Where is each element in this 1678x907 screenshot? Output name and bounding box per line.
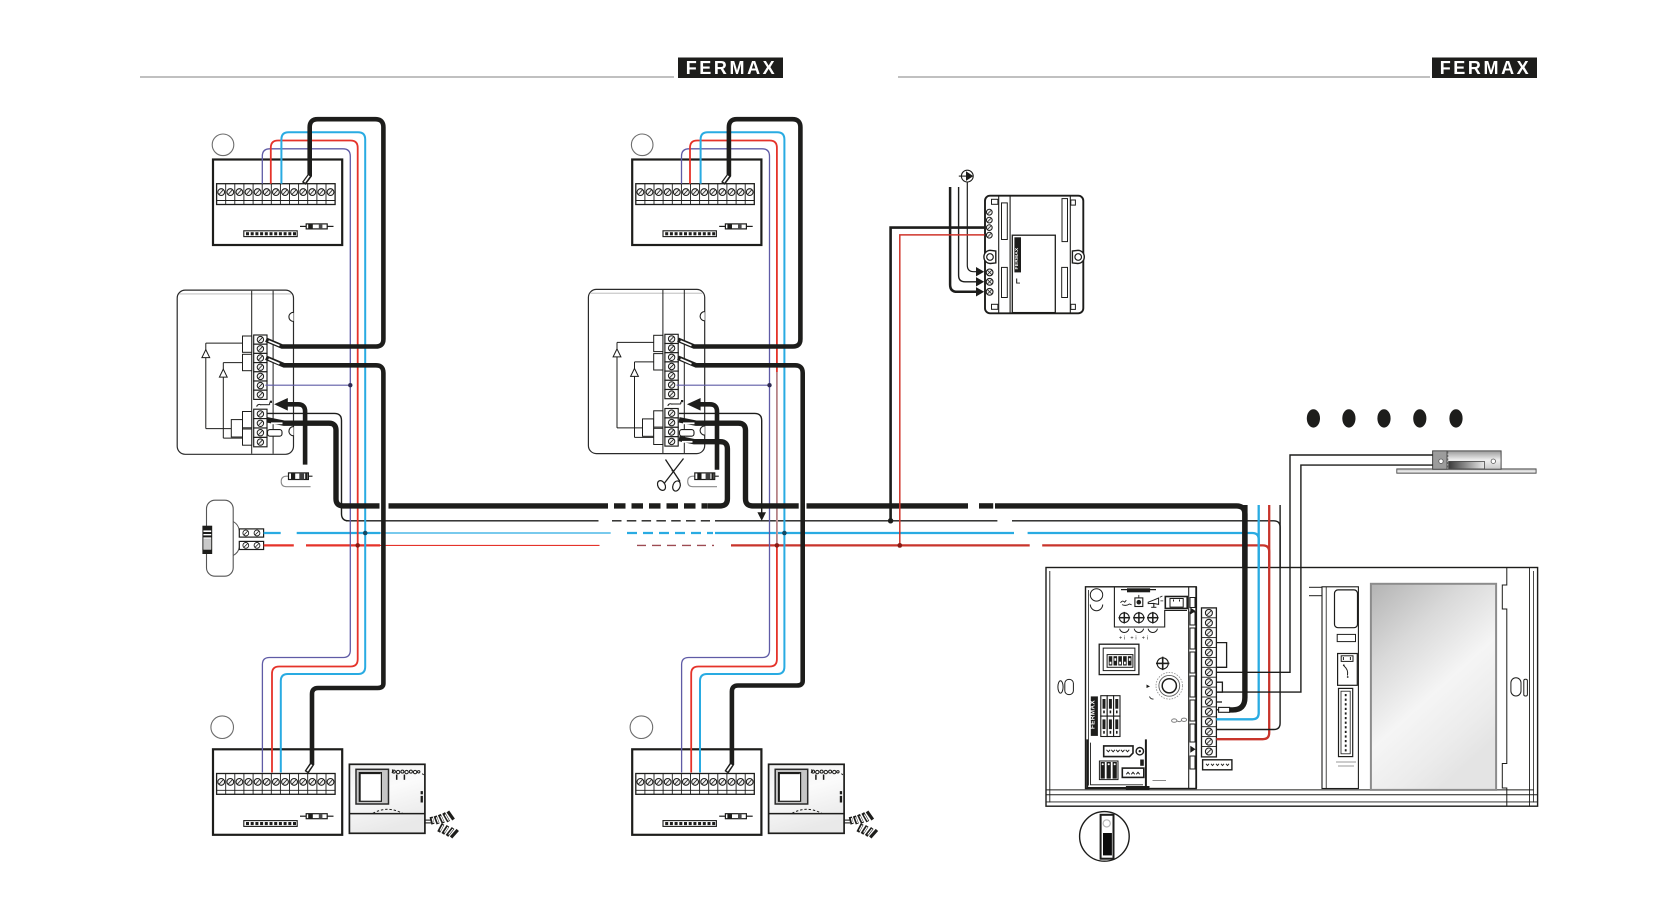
wire: red riser column 2 thin segment past D2 [776,372,778,544]
board FERMAX label vertical [1089,696,1098,736]
wire: door lock wire 2 to terminal 9 [1216,465,1432,692]
wire: thick black loop A2 to D2 IN [678,119,800,346]
terminal box A2 (top apartment 2) [632,160,761,246]
wire: red bus vertical into panel terminal 14 [1216,505,1269,739]
board potentiometer 1 [1119,612,1131,633]
wire: data thin black bus to street panel terminal 13 [715,521,1280,730]
terminator resistor below D2 [688,473,719,487]
module bottom marks [1336,762,1356,766]
call-point circle apartment 2 top [631,134,653,156]
wire: thick black riser D2 OUT down to B2 [678,358,803,773]
board speaker arcs [1090,589,1102,611]
wire: purple tap distributor D2 [677,384,770,386]
wire: red riser column 1 (A1 to B1) [271,141,358,773]
stub terminal 11 [1216,709,1218,711]
svg-text:FERMAX: FERMAX [686,58,778,78]
wire: thick black D2 to dashed bus toward D1 [679,439,727,506]
board jack marks [1172,718,1187,722]
board small mark [1153,780,1167,782]
lug panel black wire white body [1219,707,1230,712]
wire: door lock wire 1 to terminal 7 [1216,455,1432,672]
board connector block top [1165,597,1187,609]
wire: thick black riser D1 OUT down to B1 [266,358,383,773]
wire: thick black main bus segment D2 to cut [807,503,969,508]
board 5-pin connector [1104,746,1144,757]
wire: thick black main bus short dash at cut 2 [979,503,993,508]
board rotary potentiometer [1147,673,1183,700]
lug stub D1 screw 4 [268,430,283,437]
junction dot red feed on red bus [897,543,902,548]
terminator resistor below D1 [281,473,312,487]
arrow into D1 common [274,398,288,411]
distributor D1 (riser 1) [177,290,293,454]
svg-text:FERMAX: FERMAX [1089,700,1096,729]
junction dot black feed on data bus [888,518,893,523]
arrow into relay terminal 3 [976,287,984,296]
wire: blue bus vertical into panel terminal 12 [1216,505,1258,719]
board horn icon [1148,596,1163,607]
module switch symbol [1338,654,1358,686]
board mic component [1135,595,1143,607]
arrow into D2 common [687,398,701,411]
lug panel black wire [1219,707,1230,712]
door lock release strike plate [1397,451,1536,473]
terminal rail left of strip [1189,587,1197,789]
wire: relay control 3 from button [967,182,976,272]
connector below terminal strip [1203,760,1232,770]
wire: data bus vertical into panel terminal 13 [1216,505,1280,730]
relay central cover panel [1012,235,1055,312]
svg-text:L: L [1016,277,1021,286]
terminal strip bracket 8 to 9 [1216,682,1222,692]
junction dot blue riser 2 on blue bus [782,531,787,536]
relay FERMAX label [1014,237,1021,285]
module column mid panel [1309,587,1358,789]
staggered cable-cut gaps near relay [997,519,1042,547]
wire: purple tap distributor D1 [265,384,350,386]
lug D2 screw 3 [681,359,692,364]
wire: purple riser column 2 (A2 to B2) [682,149,770,773]
terminal box B1 (bottom apartment 1) [213,749,342,835]
lug stub D2 screw 3b [680,430,695,437]
scissors cut mark below D2 [656,459,684,493]
wire: blue riser column 1 (A1 to B1) [281,132,365,772]
wire: red bus to street panel terminal 14 [731,545,1269,739]
wire: data thin black bus dashed segment [612,520,710,522]
wire: thick black D2 to bus toward panel [679,420,799,506]
board bell icon [1121,600,1132,605]
wire: thick black main bus to street panel terminal 11 [995,506,1245,710]
wire: blue riser column 2 (A2 to B2) [700,132,784,772]
wire: red riser column 2 (A2 to B2) [690,141,777,773]
wire: red bus from T-connector (segment 1) [264,544,294,546]
DIP switch block [1099,644,1139,674]
wire: thick black main bus segment left of riser 1 gap [389,503,609,508]
stub terminal 10 [1216,701,1222,703]
arrow into relay terminal 1 [976,267,984,276]
wire: purple riser column 1 (A1 to B1) [262,149,350,773]
board 3-pin connector [1122,760,1144,778]
wire: blue bus dashed segment [627,532,713,534]
panel mounting slot right [1511,678,1528,696]
wire: black feed from bus to relay [891,228,985,521]
distributor D2 (riser 2) [588,289,704,453]
wire: blue bus to street panel terminal 12 [715,533,1259,719]
wire: red bus dashed segment [637,544,714,546]
relay input terminals (4 studs) [986,209,992,238]
wire: red bus thin segment [380,544,600,546]
wire: blue bus solid segment to riser 1 [297,532,380,534]
FERMAX logo top center [678,58,783,79]
line adaptor T-connector body [207,500,240,576]
wire: relay control 2 [959,187,977,282]
board potentiometer 2 [1133,612,1145,633]
lug D2 screw 2 white slit [683,422,695,424]
monitor 1 (bottom apartment 1) [349,764,459,838]
wire: thick black bus vertical into panel (over frame) [1229,505,1245,710]
lug D1 screw 2 white slit [271,422,283,424]
loudspeaker grille panel [1371,584,1496,790]
lug B1 black wire [307,765,312,771]
street panel terminal strip [1202,608,1217,757]
call-point circle apartment 1 top [212,134,234,156]
lug A2 black wire [724,176,729,183]
wire: blue bus from T-connector (segment 1) [264,532,281,534]
lug D2 screw 1 [681,341,692,346]
wire: thick black loop A1 to D1 IN [266,119,383,346]
board lower sub-board outline [1087,739,1149,790]
FERMAX logo top right [1432,58,1537,79]
header divider line right [898,76,1430,78]
junction dot red riser 1 on red bus [355,543,360,548]
svg-text:FERMAX: FERMAX [1440,58,1532,78]
wire: relay control 1 (thick) [950,187,976,292]
panel inner right frame with notches [1502,568,1507,806]
relay module body [985,196,1083,314]
relay mounting ear left [984,250,996,263]
push button symbol above relay [959,170,974,182]
wire: thick black D1 to bus (corner) [267,420,380,506]
T-connector terminal lug (blue pair) [239,529,263,537]
wire: thin black from D2 to bus with arrow [679,413,762,513]
monitor 2 (bottom apartment 2) [769,764,879,838]
header divider line left [140,76,674,78]
relay output terminals (3 studs) [986,269,993,295]
lug B2 black wire [727,765,732,771]
svg-text:+i +i +i: +i +i +i [1119,636,1150,642]
junction dot red riser 2 on red bus [775,543,780,548]
arrow down D2 thin wire onto bus [757,512,766,521]
wire: thick black from arrow D1 down to terminator [287,404,306,464]
terminal box A1 (top apartment 1) [213,160,342,246]
T-connector terminal lug (red pair) [239,541,263,549]
lug D1 screw 1 [269,341,280,346]
street panel outer frame [1046,568,1538,807]
board potentiometer 3 [1147,612,1159,633]
lug D2 screw 4 white slit [682,441,693,443]
ellipsis dots (continuation) [1307,409,1463,427]
wire: blue bus thin segment [380,532,611,534]
board component cluster boundary [1114,588,1187,628]
wire: thin black from D1 to bus [267,413,349,520]
junction dot purple riser 2 [767,383,771,387]
wire: red bus solid segment to riser 1 [306,544,380,546]
panel mounting slot left [1058,679,1074,694]
module pin connector [1339,688,1353,756]
board 3-bar terminal [1099,761,1118,780]
svg-text:FERMAX: FERMAX [1014,247,1020,270]
T-connector cable gland (striped) [203,526,212,553]
amplifier board outline [1086,587,1197,789]
call-point circle apartment 1 bottom [211,716,234,739]
arrow into relay terminal 2 [976,277,984,286]
relay mounting ear right [1072,250,1084,263]
board trimmer cross [1156,657,1169,670]
key lock symbol below panel [1080,812,1130,862]
board jumper block 3x2 [1101,696,1120,737]
wire: thick black from arrow D2 down [699,404,717,469]
lug D1 screw 3 [269,359,280,364]
wire: red feed from bus to relay [900,235,985,546]
junction dot blue riser 1 on blue bus [363,531,368,536]
lug A1 black wire [305,176,310,183]
wire: data thin black bus segment 1 [346,520,599,522]
call-point circle apartment 2 bottom [630,716,653,739]
junction dot purple riser 1 [348,383,352,387]
terminal strip bracket 4 to 6 [1216,643,1226,668]
terminal box B2 (bottom apartment 2) [632,749,761,835]
wire: thick black main bus dashed segment [614,503,707,508]
